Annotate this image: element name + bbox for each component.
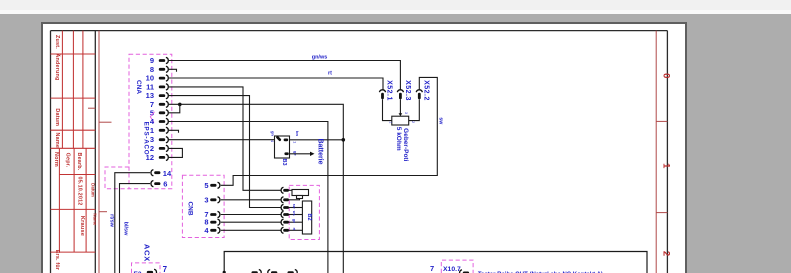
wire X52.2 to potentiometer terminal 2 (409, 99, 420, 120)
svg-text:CNB: CNB (187, 201, 194, 215)
pin symbol a in lower section (252, 270, 262, 273)
pin 1 of CNA (150, 126, 168, 135)
pin 3 of CNA (150, 135, 168, 144)
battery connector B3 (275, 136, 290, 158)
connector pin X52.1 (379, 80, 392, 101)
wire rt/sw from CNA pin 14 down (115, 173, 150, 273)
label CNA (135, 80, 142, 94)
svg-text:Ers. für: Ers. für (54, 250, 60, 271)
junction dot at B3 wire (342, 138, 346, 142)
pin 8 of CNB (204, 218, 219, 227)
svg-text:14: 14 (163, 169, 172, 178)
svg-text:EPS-ACO: EPS-ACO (143, 122, 150, 156)
junction dot at lower box edge (223, 271, 226, 273)
connector CNA dashed outline (129, 54, 172, 188)
potentiometer Geber-Poti body (392, 116, 409, 125)
svg-text:sw: sw (438, 117, 444, 125)
svg-text:6: 6 (163, 180, 167, 189)
wire CNA pin 7 to junction and bottom (169, 104, 344, 273)
pin 4 of CNB (204, 226, 219, 235)
TITLE BLOCK (51, 31, 96, 253)
wire CNA pin 5 up to pin 7 wire (169, 104, 180, 113)
pin 2 of B3 (284, 139, 289, 142)
pin symbol of X10.7 (460, 270, 470, 273)
svg-text:Batterie: Batterie (317, 138, 324, 164)
svg-text:ACX: ACX (142, 244, 151, 262)
wire CNA pin 3 to battery connector B3 (169, 139, 275, 141)
svg-text:05.10.2012: 05.10.2012 (77, 177, 83, 206)
svg-text:1: 1 (388, 121, 392, 123)
pin 6 of CNA (151, 180, 167, 189)
svg-text:8: 8 (150, 65, 154, 74)
svg-text:ws: ws (292, 210, 296, 216)
wire CNA pin 13 to B2 pin 3 (169, 96, 281, 208)
connector X10.7 dashed outline (441, 260, 473, 273)
pin 5 of B2 (281, 219, 302, 226)
svg-text:3: 3 (404, 112, 408, 114)
pin 7 of CNA (150, 100, 168, 109)
svg-text:Datum: Datum (90, 183, 95, 197)
svg-text:gn: gn (270, 131, 275, 136)
svg-text:5: 5 (204, 181, 208, 190)
svg-text:4: 4 (204, 226, 209, 235)
svg-text:gn/ws: gn/ws (312, 55, 328, 61)
svg-text:rt: rt (328, 71, 332, 77)
resistor block in B2 (302, 201, 311, 234)
svg-text:X10.7: X10.7 (443, 266, 461, 273)
pin symbol b in lower section (268, 270, 278, 273)
svg-text:1: 1 (293, 141, 298, 144)
pin 3 of B3 (284, 152, 288, 155)
svg-text:Bearb.: Bearb. (76, 153, 82, 171)
svg-text:Name: Name (54, 133, 60, 148)
wire rt from CNA pin 10 to X52.1 (169, 78, 383, 90)
pin 3 of B2 (281, 204, 302, 211)
connector ACX dashed outline (132, 263, 161, 273)
connector CNB dashed outline (182, 175, 224, 237)
svg-text:2: 2 (660, 251, 671, 256)
svg-text:1: 1 (660, 163, 671, 169)
svg-text:13: 13 (146, 91, 154, 100)
svg-text:ge: ge (292, 219, 296, 223)
svg-text:4: 4 (150, 117, 155, 126)
connector CNA lower section (pins 14,6) dashed outline (105, 167, 129, 189)
svg-text:3: 3 (204, 195, 208, 204)
connector pin X52.3 (397, 80, 411, 101)
wire sw from CNB pin 5 to X52.2 (221, 77, 437, 185)
pin 14 of CNA (151, 169, 172, 178)
svg-text:B2: B2 (306, 213, 312, 220)
svg-text:Datum: Datum (54, 108, 60, 126)
pin 6 of B2 (281, 227, 302, 233)
pin 7 of CNB (204, 210, 219, 219)
svg-text:X52.3: X52.3 (404, 80, 411, 101)
arrow to Batterie (290, 152, 315, 156)
wire X52.1 to potentiometer terminal 1 (383, 99, 392, 120)
pin 10 of CNA (146, 74, 169, 83)
pin 1 of B2 (281, 187, 292, 193)
pin 4 of CNA (150, 117, 168, 126)
svg-text:3: 3 (150, 135, 154, 144)
pin 11 of CNA (146, 82, 168, 91)
wire gn/ws from CNA pin 9 to X52.3 (169, 61, 401, 91)
svg-text:rt/sw: rt/sw (109, 214, 115, 228)
potentiometer symbol in B2 (292, 190, 309, 199)
svg-text:B3: B3 (281, 158, 287, 165)
svg-text:12: 12 (146, 153, 154, 162)
pin 8 of CNA (150, 65, 168, 74)
svg-text:2: 2 (150, 144, 154, 153)
svg-text:10: 10 (146, 74, 154, 83)
svg-text:Gepr.: Gepr. (64, 153, 70, 168)
svg-text:Änderung: Änderung (54, 53, 61, 80)
svg-text:7: 7 (163, 265, 168, 273)
svg-text:Norm: Norm (53, 152, 59, 167)
svg-text:bl/sw: bl/sw (123, 222, 129, 236)
pin 12 of CNA (146, 153, 169, 162)
wire CNB pin 4 to B2 pin 6 (221, 229, 281, 231)
wire CNA pin 11 to B2 pin 1 (169, 87, 281, 190)
wire CNB pin 7 to B2 pin 4 (221, 214, 281, 216)
svg-text:X52.2: X52.2 (423, 80, 430, 101)
svg-text:1: 1 (150, 126, 154, 135)
wire stub CNA pin 8 (169, 69, 177, 71)
svg-text:9: 9 (150, 56, 154, 65)
pin 2 of B2 (281, 197, 299, 203)
connector pin X52.2 (416, 80, 430, 101)
wire stub CNA pin 1 (169, 130, 179, 132)
pin 5 of CNA (150, 108, 168, 117)
wire X52.3 to potentiometer wiper (399, 99, 401, 115)
lower section enclosure box (224, 252, 647, 273)
svg-text:0: 0 (660, 73, 671, 78)
pin 2 of CNA (150, 144, 168, 153)
svg-text:X52.1: X52.1 (386, 80, 393, 101)
magenta leader mark at pin 5 (150, 112, 154, 123)
wire CNA pin 2 to pin 12 bridge (169, 148, 183, 157)
svg-text:sw: sw (292, 204, 296, 209)
svg-text:Zust.: Zust. (54, 35, 60, 49)
svg-text:Name: Name (93, 213, 98, 226)
pin symbol c in lower section (288, 270, 298, 273)
svg-text:CNA: CNA (135, 80, 142, 94)
wire CNB pin 3 to B2 pin 2 (221, 199, 281, 201)
pin 5 of CNB (204, 181, 219, 190)
svg-text:2: 2 (411, 121, 415, 123)
wire CNA pin 4 down to lower sheet area (169, 122, 328, 273)
svg-text:bn: bn (295, 131, 300, 136)
svg-text:11: 11 (146, 82, 154, 91)
wire CNB pin 8 to B2 pin 5 (221, 221, 281, 223)
junction dot pin5/pin7 (178, 103, 182, 107)
wire B3 pin2 to junction (290, 139, 344, 141)
wiper arrow on potentiometer (399, 113, 403, 116)
pin symbol in ACX (147, 269, 157, 273)
pin 1 of B3 (diagonal plug) (276, 135, 282, 141)
svg-text:Krause: Krause (79, 216, 85, 236)
pin 9 of CNA (150, 56, 168, 65)
label EPS-ACO (143, 122, 150, 156)
pin 3 of CNB (204, 195, 219, 204)
svg-text:7: 7 (430, 264, 434, 273)
pin 4 of B2 (281, 210, 302, 218)
wire bl/sw from CNA pin 6 down (120, 184, 151, 273)
sensor B2 dashed outline (289, 185, 319, 239)
svg-text:5 kOhm: 5 kOhm (395, 127, 402, 151)
pin 13 of CNA (146, 91, 169, 100)
